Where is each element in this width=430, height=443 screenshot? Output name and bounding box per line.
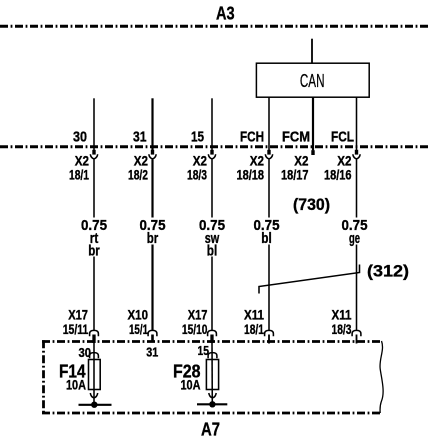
svg-text:31: 31 [146, 345, 158, 359]
junction dot rail 15 [209, 401, 215, 407]
junction pin wire 15 into A7 [210, 335, 213, 344]
connector socket X2 18/16 [353, 154, 360, 159]
connector pin X2 18/1 [92, 150, 95, 155]
wire 31 upper segment [151, 98, 153, 150]
fuse box A7 left edge [42, 340, 45, 414]
svg-text:18/3: 18/3 [332, 321, 352, 337]
rail 30 bar [79, 404, 112, 406]
svg-text:31: 31 [133, 129, 147, 146]
wire 15 upper segment [211, 98, 213, 150]
svg-text:10A: 10A [181, 377, 201, 393]
svg-text:10A: 10A [66, 377, 86, 393]
wire FCM from CAN box [312, 97, 314, 150]
connector pin X2 18/17 [311, 150, 314, 155]
fuse box A7 bottom edge [42, 412, 381, 415]
svg-text:FCH: FCH [240, 129, 264, 146]
fuse F14 body [89, 360, 101, 390]
wire 30 middle segment above label [93, 159, 95, 217]
connector pin X2 18/2 [151, 150, 154, 155]
connector pin X2 18/18 [267, 150, 270, 155]
connector socket X10 15/1 [148, 330, 157, 336]
connector socket X2 18/2 [149, 154, 156, 159]
wire 30 lower segment [93, 257, 95, 331]
pin wire bl into A7 [268, 335, 270, 344]
svg-text:br: br [147, 230, 159, 247]
svg-text:CAN: CAN [300, 71, 325, 91]
wire FCL from CAN box [356, 97, 358, 150]
wire 15 middle segment above label [211, 159, 213, 217]
wire 15 lower segment [211, 257, 213, 331]
pin wire ge into A7 [356, 335, 358, 344]
fuse box A7 torn right edge [380, 341, 383, 413]
wire ge middle segment above label [356, 159, 358, 217]
svg-text:18/1: 18/1 [69, 166, 89, 182]
svg-text:18/1: 18/1 [244, 321, 264, 337]
wire from A3 line to CAN box [311, 39, 313, 64]
wire bl middle segment above label [268, 159, 270, 217]
svg-text:15/10: 15/10 [182, 321, 208, 337]
wire FCH from CAN box [268, 97, 270, 150]
fuse socket above F28 [208, 353, 217, 359]
wire 30 inside A7 [93, 343, 95, 405]
svg-text:15: 15 [191, 129, 204, 146]
connector socket X11 18/1 [265, 330, 274, 336]
svg-text:18/3: 18/3 [187, 166, 207, 182]
svg-text:15/11: 15/11 [63, 321, 89, 337]
wire bl lower segment [268, 245, 270, 331]
wire 31 lower segment [151, 245, 153, 331]
fuse F28 body [206, 360, 218, 390]
wire 31 middle segment above label [151, 159, 153, 217]
svg-text:FCL: FCL [331, 129, 354, 146]
connector socket X11 18/3 [352, 330, 361, 336]
svg-text:15/1: 15/1 [129, 321, 148, 337]
connector socket X17 15/10 [208, 330, 217, 336]
svg-text:FCM: FCM [282, 129, 310, 146]
svg-text:18/2: 18/2 [128, 166, 148, 182]
twisted pair leader line (312) [259, 265, 360, 294]
svg-text:(312): (312) [367, 262, 409, 281]
socket below F14 [90, 393, 97, 398]
junction pin wire 30 into A7 [92, 335, 95, 344]
svg-text:15: 15 [198, 344, 210, 358]
fuse box A7 top edge [42, 340, 381, 343]
connector socket X2 18/3 [208, 154, 215, 159]
svg-text:30: 30 [73, 129, 87, 146]
svg-text:bl: bl [261, 230, 272, 247]
svg-text:18/18: 18/18 [237, 166, 265, 182]
node A3 boundary dash-dot line [0, 25, 430, 28]
wire ge lower segment [356, 245, 358, 331]
connector socket X2 18/1 [90, 154, 97, 159]
socket below F28 [209, 393, 216, 398]
svg-text:A3: A3 [216, 4, 235, 24]
rail 15 bar [197, 403, 227, 405]
connector socket X17 15/11 [90, 330, 99, 336]
fuse socket above F14 [90, 353, 99, 359]
svg-text:18/16: 18/16 [324, 166, 352, 182]
svg-text:A7: A7 [201, 419, 220, 439]
wire 15 inside A7 [211, 343, 213, 404]
CAN box U1 [256, 63, 369, 97]
connector pin X2 18/3 [210, 150, 213, 155]
junction pin wire 31 into A7 [151, 335, 154, 343]
svg-text:18/17: 18/17 [281, 166, 309, 182]
connector socket X2 18/18 [265, 154, 272, 159]
junction dot rail 30 [91, 402, 97, 408]
connector X2 boundary dash-dot line [0, 145, 430, 148]
connector pin X2 18/16 [355, 150, 358, 155]
wire 30 upper segment [93, 98, 95, 150]
svg-text:ge: ge [349, 230, 360, 247]
svg-text:(730): (730) [293, 196, 330, 214]
